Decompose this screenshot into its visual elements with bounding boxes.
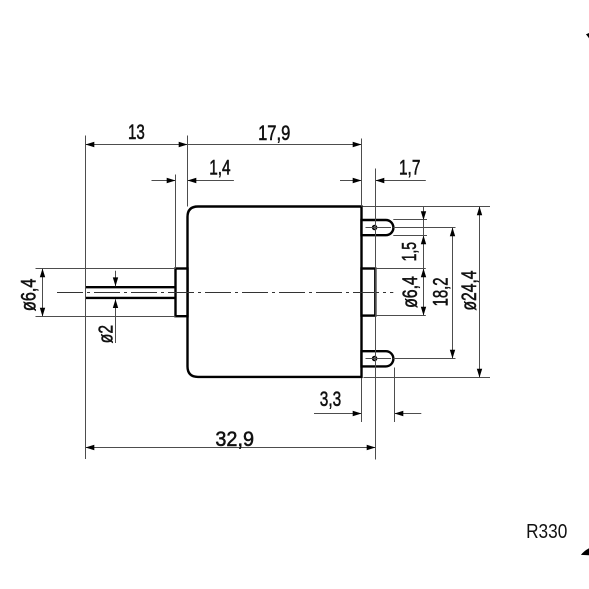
svg-text:1,7: 1,7 (399, 156, 420, 179)
svg-text:R330: R330 (526, 521, 567, 543)
svg-text:17,9: 17,9 (258, 122, 290, 145)
svg-text:13: 13 (128, 121, 145, 144)
svg-text:ø2: ø2 (95, 325, 118, 343)
svg-text:ø24,4: ø24,4 (458, 270, 481, 310)
svg-text:ø6,4: ø6,4 (18, 278, 41, 311)
svg-text:32,9: 32,9 (215, 428, 254, 451)
svg-text:3,3: 3,3 (320, 388, 341, 411)
svg-text:1,5: 1,5 (398, 242, 421, 262)
svg-text:18,2: 18,2 (429, 277, 452, 306)
svg-text:1,4: 1,4 (209, 156, 231, 179)
svg-text:ø6,4: ø6,4 (399, 276, 422, 308)
